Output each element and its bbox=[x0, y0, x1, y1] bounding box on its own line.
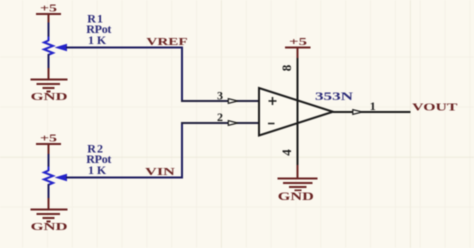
power port +5 (R1 top) bbox=[36, 4, 61, 24]
svg-text:2: 2 bbox=[217, 110, 223, 124]
op-amp - input mark bbox=[268, 123, 275, 125]
power port +5 (op-amp) bbox=[285, 37, 311, 58]
svg-text:GND: GND bbox=[278, 189, 314, 203]
resistor R1 (RPot 1K) bbox=[44, 37, 67, 55]
pin 1 arrow bbox=[353, 110, 363, 115]
svg-text:VOUT: VOUT bbox=[412, 101, 458, 113]
svg-text:8: 8 bbox=[279, 64, 294, 71]
svg-text:VREF: VREF bbox=[146, 36, 188, 48]
op-amp + input mark bbox=[269, 97, 277, 105]
wire R1 wiper to VREF corner bbox=[66, 47, 182, 49]
ground GND (R2) bbox=[31, 198, 68, 233]
svg-text:GND: GND bbox=[31, 91, 68, 103]
ground GND (R1) bbox=[31, 68, 68, 103]
svg-text:VIN: VIN bbox=[145, 166, 175, 178]
svg-text:+5: +5 bbox=[40, 134, 57, 145]
R2 designator labels bbox=[86, 142, 111, 177]
wire R2 to GND bbox=[48, 184, 50, 200]
svg-text:1K: 1K bbox=[88, 33, 107, 47]
wire VIN corner up bbox=[181, 123, 183, 179]
R1 designator labels bbox=[86, 12, 111, 47]
svg-text:4: 4 bbox=[279, 149, 294, 156]
wire +5 to R1 bbox=[48, 23, 50, 39]
svg-text:1: 1 bbox=[370, 99, 376, 113]
wire +5 to R2 bbox=[48, 154, 50, 168]
svg-text:+5: +5 bbox=[40, 4, 57, 15]
op-amp U1 body bbox=[259, 88, 333, 136]
pin 1 output wire bbox=[333, 111, 411, 113]
wire VREF corner down bbox=[181, 47, 183, 102]
wire into pin 3 bbox=[181, 100, 259, 102]
pin 2 arrow bbox=[228, 121, 237, 126]
svg-text:353N: 353N bbox=[315, 89, 353, 103]
resistor R2 (RPot 1K) bbox=[44, 167, 67, 185]
ground GND (op-amp) bbox=[278, 165, 318, 203]
svg-text:1K: 1K bbox=[88, 163, 107, 177]
pin 3 arrow bbox=[228, 99, 237, 104]
wire into pin 2 bbox=[181, 122, 259, 124]
svg-text:+5: +5 bbox=[289, 37, 307, 48]
wire R1 to GND bbox=[48, 54, 50, 70]
wire R2 wiper to VIN corner bbox=[66, 177, 182, 179]
power port +5 (R2 top) bbox=[36, 134, 61, 156]
svg-text:GND: GND bbox=[31, 221, 68, 233]
svg-text:3: 3 bbox=[217, 89, 223, 103]
pin 8 / pin 4 power line bbox=[297, 57, 299, 167]
